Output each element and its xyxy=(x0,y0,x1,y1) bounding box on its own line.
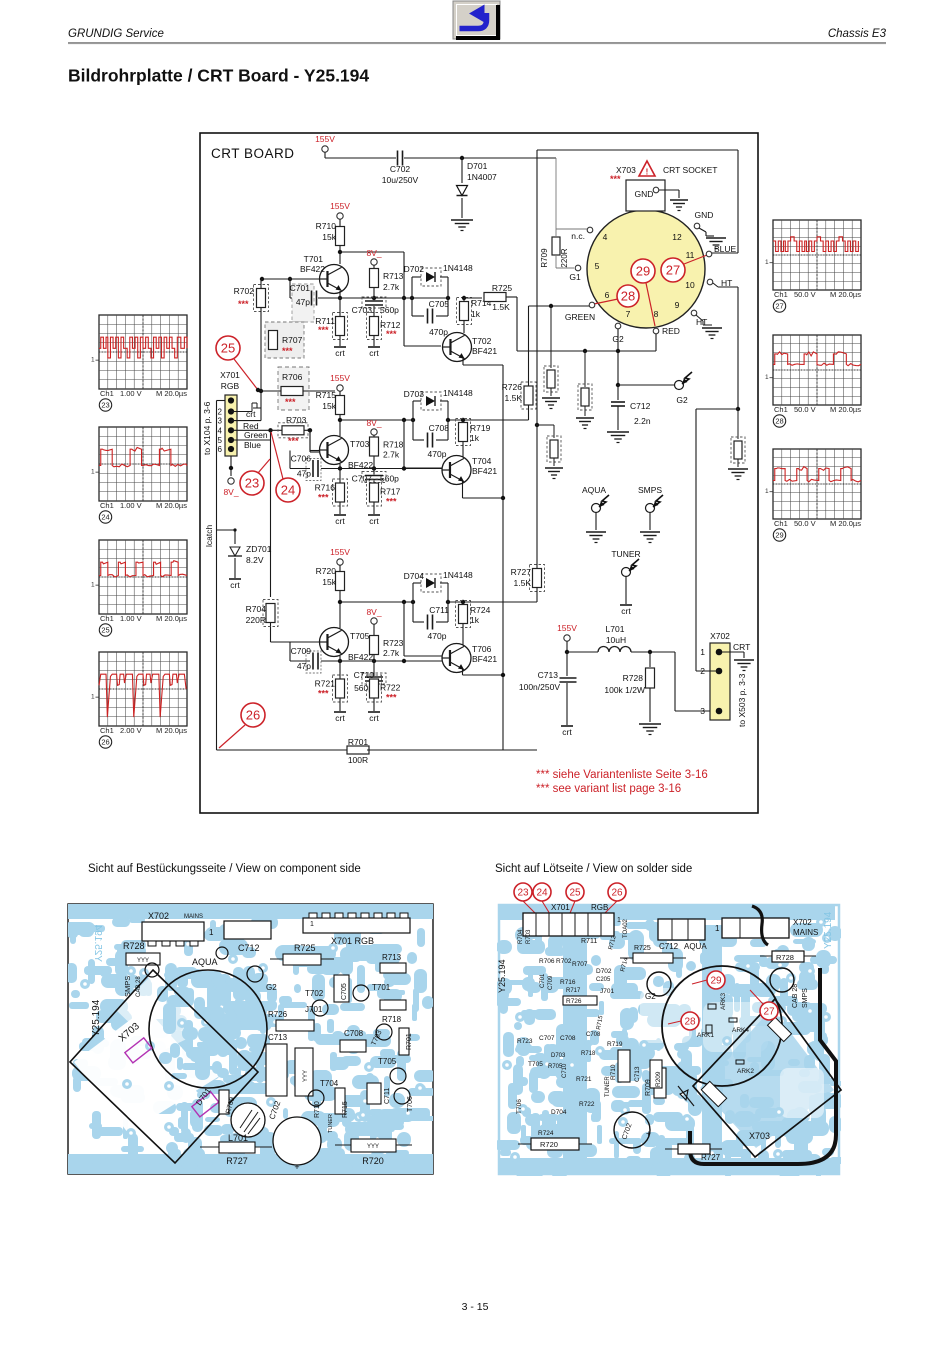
svg-text:100R: 100R xyxy=(348,755,368,765)
ground crt R712 xyxy=(368,347,380,358)
svg-text:AQUA: AQUA xyxy=(684,942,707,951)
svg-text:15k: 15k xyxy=(322,577,336,587)
svg-text:29: 29 xyxy=(636,264,650,279)
svg-text:R726: R726 xyxy=(566,998,582,1005)
svg-text:CRT SOCKET: CRT SOCKET xyxy=(663,165,717,175)
svg-text:CRT BOARD: CRT BOARD xyxy=(211,146,295,161)
capacitor C709 xyxy=(291,646,321,673)
svg-text:470p: 470p xyxy=(429,327,448,337)
right R727 xyxy=(665,1144,722,1162)
svg-text:CAB 28: CAB 28 xyxy=(792,984,799,1008)
svg-text:R705: R705 xyxy=(548,1064,563,1070)
footer page number xyxy=(462,1301,489,1313)
svg-text:*** see variant list page 3-16: *** see variant list page 3-16 xyxy=(536,783,681,795)
svg-text:BLUE: BLUE xyxy=(714,244,737,254)
svg-text:8V_: 8V_ xyxy=(366,607,381,617)
svg-text:50.0 V: 50.0 V xyxy=(794,519,816,528)
svg-text:9: 9 xyxy=(675,300,680,310)
wire pin4 green xyxy=(231,428,284,432)
emitter bus xyxy=(501,365,505,750)
right labels top cluster xyxy=(581,918,629,950)
resistor R719 xyxy=(456,418,491,457)
svg-text:R717: R717 xyxy=(566,988,581,994)
svg-text:1.5K: 1.5K xyxy=(492,302,510,312)
pcb C708 T703 R701 xyxy=(340,1024,413,1055)
svg-text:J701: J701 xyxy=(600,988,614,995)
svg-text:10u/250V: 10u/250V xyxy=(382,175,419,185)
svg-text:G2: G2 xyxy=(676,395,688,405)
svg-text:crt: crt xyxy=(562,727,572,737)
capacitor C705 xyxy=(412,298,449,337)
svg-text:C708: C708 xyxy=(560,1035,576,1042)
svg-text:1: 1 xyxy=(765,374,769,381)
svg-text:C701: C701 xyxy=(290,283,311,293)
transistor T703 xyxy=(320,436,374,471)
wire GREEN line xyxy=(529,304,590,386)
right R725 xyxy=(620,945,686,963)
wire base feed xyxy=(271,626,320,642)
right circled 27 xyxy=(750,990,778,1020)
svg-text:GRUNDIG Service: GRUNDIG Service xyxy=(68,28,164,40)
svg-text:470p: 470p xyxy=(428,449,447,459)
svg-text:SMPS: SMPS xyxy=(638,485,662,495)
svg-text:47p: 47p xyxy=(297,469,311,479)
svg-text:R724: R724 xyxy=(470,605,491,615)
svg-text:3: 3 xyxy=(700,706,705,716)
svg-text:155V: 155V xyxy=(330,201,350,211)
svg-text:C711: C711 xyxy=(384,1088,391,1104)
svg-text:47p: 47p xyxy=(297,661,311,671)
svg-text:4: 4 xyxy=(603,232,608,242)
resistor R710 xyxy=(316,221,345,246)
wire base feed xyxy=(310,430,320,450)
transistor T701 xyxy=(300,254,349,294)
svg-text:T705: T705 xyxy=(528,1061,543,1068)
X701 pins xyxy=(218,397,235,454)
svg-text:R718: R718 xyxy=(581,1051,596,1057)
svg-text:M 20.0µs: M 20.0µs xyxy=(156,614,187,623)
right C712 AQUA connector xyxy=(658,919,707,951)
svg-text:T702: T702 xyxy=(472,336,492,346)
svg-text:2.2n: 2.2n xyxy=(634,416,651,426)
svg-text:Sicht auf Bestückungsseite / V: Sicht auf Bestückungsseite / View on com… xyxy=(88,863,361,875)
svg-text:8: 8 xyxy=(654,309,659,319)
svg-text:T702: T702 xyxy=(305,989,324,998)
svg-text:Y25.194: Y25.194 xyxy=(91,999,102,1037)
svg-text:50.0 V: 50.0 V xyxy=(794,405,816,414)
svg-text:Ch1: Ch1 xyxy=(100,501,114,510)
node 155V stage T703 xyxy=(330,373,350,395)
svg-text:R701: R701 xyxy=(406,1033,413,1050)
svg-text:1: 1 xyxy=(91,582,95,589)
header rule xyxy=(68,43,886,44)
svg-text:25: 25 xyxy=(221,341,235,356)
svg-text:10: 10 xyxy=(685,280,695,290)
svg-text:29: 29 xyxy=(710,976,722,987)
svg-text:1k: 1k xyxy=(470,433,480,443)
pcb T702 C705 T701 xyxy=(305,975,391,1016)
pin HT upper xyxy=(707,278,738,409)
svg-text:8V_: 8V_ xyxy=(223,487,238,497)
svg-text:G2: G2 xyxy=(645,992,656,1001)
resistor R713 xyxy=(370,269,404,299)
connector X701 xyxy=(220,370,240,456)
svg-text:R725: R725 xyxy=(294,943,316,953)
svg-text:D703: D703 xyxy=(551,1053,566,1059)
svg-text:Ch1: Ch1 xyxy=(100,726,114,735)
pcb AQUA xyxy=(192,947,228,967)
transistor T705 xyxy=(320,628,374,663)
header text GRUNDIG Service xyxy=(68,28,164,40)
resistor R722 xyxy=(367,675,401,711)
svg-text:R710: R710 xyxy=(610,1064,617,1080)
svg-text:T704: T704 xyxy=(472,456,492,466)
svg-text:50.0 V: 50.0 V xyxy=(794,290,816,299)
resistor R728 xyxy=(604,652,661,735)
wire emitter t1 xyxy=(339,656,341,661)
wire output line xyxy=(338,415,529,436)
pcb C702 cap xyxy=(273,1117,321,1172)
resistor R725 xyxy=(462,283,517,312)
svg-text:R728: R728 xyxy=(623,673,644,683)
svg-text:X702: X702 xyxy=(710,631,730,641)
ground HT lower xyxy=(702,328,722,339)
svg-text:26: 26 xyxy=(611,888,623,899)
svg-text:T701: T701 xyxy=(372,983,391,992)
capacitor C710 xyxy=(354,661,386,693)
svg-text:C702: C702 xyxy=(390,164,411,174)
ground at socket key xyxy=(670,200,688,211)
pcb C712 R725 xyxy=(238,943,334,965)
pin G1 xyxy=(569,265,581,282)
svg-text:YYY: YYY xyxy=(303,1070,309,1082)
svg-text:ARK4: ARK4 xyxy=(732,1027,749,1034)
pcb Y25.194 xyxy=(91,999,102,1037)
pin G2 xyxy=(612,323,624,344)
svg-text:C701: C701 xyxy=(540,973,546,988)
node 155V L701 xyxy=(557,623,577,654)
node 155V stage T705 xyxy=(330,547,350,571)
resistor R709 xyxy=(540,237,569,268)
blue bus with R727 xyxy=(511,150,545,602)
resistor R712 xyxy=(367,313,401,347)
svg-text:crt: crt xyxy=(621,606,631,616)
circled 26 xyxy=(219,703,265,748)
pcb rect a xyxy=(224,921,271,939)
svg-text:T706: T706 xyxy=(407,1096,414,1112)
svg-text:crt: crt xyxy=(335,516,345,526)
transistor T704 xyxy=(442,456,497,485)
resistor R701 xyxy=(217,737,538,765)
svg-text:***: *** xyxy=(318,689,329,699)
spark resistor g2 xyxy=(576,351,594,429)
svg-text:M 20.0µs: M 20.0µs xyxy=(830,519,861,528)
right R726 box xyxy=(563,996,597,1005)
diode D704 xyxy=(404,570,473,602)
svg-text:M 20.0µs: M 20.0µs xyxy=(156,726,187,735)
svg-text:***: *** xyxy=(285,397,296,407)
diode D702 xyxy=(404,263,473,298)
svg-text:crt: crt xyxy=(230,580,240,590)
right circled 29 xyxy=(692,971,725,989)
pin GREEN xyxy=(565,302,595,322)
svg-text:SMPS: SMPS xyxy=(802,988,809,1008)
svg-text:Y25.194: Y25.194 xyxy=(497,959,507,993)
svg-text:R717: R717 xyxy=(380,487,401,497)
svg-text:23: 23 xyxy=(517,888,529,899)
svg-text:1k: 1k xyxy=(471,309,481,319)
svg-text:R723: R723 xyxy=(383,638,404,648)
pcb SMPS CAB 28 xyxy=(123,963,159,997)
pcb R720 xyxy=(335,1139,412,1166)
spark gap AQUA xyxy=(582,485,609,543)
pcb T705 xyxy=(378,1057,406,1084)
svg-text:M 20.0µs: M 20.0µs xyxy=(156,501,187,510)
svg-text:crt: crt xyxy=(369,713,379,723)
left board big circle xyxy=(149,970,267,1088)
svg-text:100n/250V: 100n/250V xyxy=(519,682,560,692)
svg-text:R706: R706 xyxy=(282,372,303,382)
svg-text:R725: R725 xyxy=(492,283,513,293)
X701 crt stub xyxy=(231,403,261,412)
svg-text:X701: X701 xyxy=(551,903,570,912)
ground crt zd701 xyxy=(229,579,241,590)
svg-text:1: 1 xyxy=(617,917,621,924)
circled 24 xyxy=(271,432,300,502)
svg-text:1.00 V: 1.00 V xyxy=(120,614,142,623)
ground crt b xyxy=(368,515,380,526)
svg-text:1: 1 xyxy=(715,924,720,933)
svg-text:2.00 V: 2.00 V xyxy=(120,726,142,735)
ground right of socket xyxy=(706,238,726,249)
svg-text:560p: 560p xyxy=(380,474,399,484)
svg-text:R726: R726 xyxy=(268,1010,288,1019)
svg-text:1N4007: 1N4007 xyxy=(467,172,497,182)
spark resistor green xyxy=(542,306,560,409)
svg-text:crt: crt xyxy=(335,713,345,723)
schematic frame xyxy=(200,133,758,813)
socket key box with GND xyxy=(626,180,679,211)
header text Chassis E3 xyxy=(828,28,887,40)
svg-text:27: 27 xyxy=(763,1007,775,1018)
svg-text:D704: D704 xyxy=(551,1109,567,1116)
scope waveform 23 xyxy=(91,315,187,411)
svg-text:R722: R722 xyxy=(579,1101,595,1108)
svg-text:2.7k: 2.7k xyxy=(383,450,400,460)
svg-text:C713: C713 xyxy=(634,1066,641,1082)
wire to X702 pin3 xyxy=(675,652,712,711)
svg-text:*** siehe Variantenliste Seite: *** siehe Variantenliste Seite 3-16 xyxy=(536,769,708,781)
pcb R713 R718 xyxy=(380,953,406,1024)
connector X702 pcb xyxy=(142,911,214,946)
svg-text:CAB 28: CAB 28 xyxy=(136,976,142,997)
svg-text:470p: 470p xyxy=(428,631,447,641)
svg-text:R728: R728 xyxy=(123,941,145,951)
resistor R724 xyxy=(456,600,491,645)
right TUNER xyxy=(605,1076,611,1097)
svg-text:C205: C205 xyxy=(596,977,611,983)
zener ZD701 xyxy=(217,528,272,578)
right thick bracket xyxy=(752,906,768,945)
wire HT to X702 xyxy=(696,409,738,671)
svg-text:100k 1/2W: 100k 1/2W xyxy=(604,685,645,695)
right C702 circle xyxy=(614,1112,651,1148)
section title solder side xyxy=(495,863,692,875)
svg-text:AQUA: AQUA xyxy=(582,485,606,495)
svg-text:TUNER: TUNER xyxy=(611,549,640,559)
svg-text:Y25.194: Y25.194 xyxy=(823,911,834,949)
circled 27 xyxy=(661,255,707,282)
capacitor C707 xyxy=(352,469,400,484)
right connector X701 xyxy=(523,903,621,936)
svg-text:12: 12 xyxy=(672,232,682,242)
svg-text:R723: R723 xyxy=(517,1038,533,1045)
svg-text:6: 6 xyxy=(605,290,610,300)
svg-text:47p: 47p xyxy=(296,297,310,307)
scope waveform 24 xyxy=(91,427,187,523)
svg-text:AQUA: AQUA xyxy=(192,957,218,967)
label to X503 xyxy=(737,673,747,727)
svg-text:155V: 155V xyxy=(330,373,350,383)
svg-text:BF421: BF421 xyxy=(472,346,497,356)
resistor R714 xyxy=(457,298,492,334)
svg-text:C713: C713 xyxy=(268,1033,288,1042)
node line xyxy=(290,642,442,663)
wire emitter T702 xyxy=(463,358,503,365)
resistor R706 xyxy=(261,367,335,410)
right T704 labels extra xyxy=(586,1015,605,1038)
wire R709 to G1 xyxy=(556,255,574,268)
scope waveform 25 xyxy=(91,540,187,636)
svg-text:R716: R716 xyxy=(315,483,336,493)
svg-text:Y25.194: Y25.194 xyxy=(92,924,103,962)
svg-text:1N4148: 1N4148 xyxy=(443,570,473,580)
node line xyxy=(290,451,442,471)
ground crt a xyxy=(334,712,346,723)
pcb C713 YYY xyxy=(266,1033,313,1096)
svg-text:T705: T705 xyxy=(378,1057,397,1066)
spark gap SMPS xyxy=(638,485,663,543)
svg-text:RGB: RGB xyxy=(221,381,240,391)
page title xyxy=(68,66,369,86)
X702 pin2 wire xyxy=(696,670,719,672)
right board white rect 1 xyxy=(767,1017,791,1041)
label CRT X702 xyxy=(722,642,750,658)
right circle pad xyxy=(770,968,794,992)
svg-text:11: 11 xyxy=(686,250,695,260)
left board copper pattern xyxy=(64,904,436,1176)
right small marks xyxy=(706,1004,744,1064)
X701 signal names xyxy=(243,409,268,450)
svg-text:R209: R209 xyxy=(655,1071,662,1087)
svg-text:1.5K: 1.5K xyxy=(505,393,523,403)
svg-text:M 20.0µs: M 20.0µs xyxy=(830,405,861,414)
capacitor C712 xyxy=(611,401,651,430)
svg-text:155V: 155V xyxy=(330,547,350,557)
svg-text:YYY: YYY xyxy=(137,958,149,964)
svg-text:155V: 155V xyxy=(315,134,335,144)
socket pin numbers xyxy=(595,232,695,319)
svg-text:Ch1: Ch1 xyxy=(100,614,114,623)
svg-text:R719: R719 xyxy=(470,423,491,433)
svg-text:R703: R703 xyxy=(526,929,532,944)
svg-text:lcatch: lcatch xyxy=(204,525,214,547)
svg-text:ZD701: ZD701 xyxy=(246,544,272,554)
circled 25 xyxy=(216,336,260,392)
svg-text:X703: X703 xyxy=(749,1131,770,1141)
X701 pin1 stub xyxy=(217,400,226,402)
svg-text:26: 26 xyxy=(101,738,109,747)
svg-text:T705: T705 xyxy=(350,631,370,641)
node 8V X701 xyxy=(223,456,238,497)
svg-text:+: + xyxy=(294,1162,299,1172)
node 155V top xyxy=(315,134,335,152)
svg-text:BF421: BF421 xyxy=(472,466,497,476)
wire base T701 xyxy=(260,277,319,281)
svg-text:R721: R721 xyxy=(315,679,336,689)
svg-text:2.7k: 2.7k xyxy=(383,282,400,292)
svg-text:2: 2 xyxy=(218,408,223,417)
svg-text:YYY: YYY xyxy=(367,1144,379,1150)
svg-text:crt: crt xyxy=(369,516,379,526)
svg-text:X702: X702 xyxy=(793,918,812,927)
pcb T704 R715 R710 TUNER xyxy=(308,1079,349,1133)
title CRT BOARD xyxy=(211,146,295,161)
wire blue rail xyxy=(537,150,738,253)
svg-text:28: 28 xyxy=(684,1017,696,1028)
svg-text:M 20.0µs: M 20.0µs xyxy=(156,389,187,398)
right circled 28 xyxy=(668,1012,699,1030)
svg-text:R713: R713 xyxy=(382,953,402,962)
right X702 MAINS xyxy=(715,918,818,938)
svg-text:G2: G2 xyxy=(266,983,277,992)
resistor R711 xyxy=(315,298,347,346)
svg-text:24: 24 xyxy=(536,888,548,899)
svg-text:27: 27 xyxy=(775,302,783,311)
svg-text:GREEN: GREEN xyxy=(565,312,595,322)
svg-text:C713: C713 xyxy=(538,670,559,680)
svg-text:R719: R719 xyxy=(607,1041,623,1048)
svg-text:R726: R726 xyxy=(502,382,523,392)
svg-text:1.00 V: 1.00 V xyxy=(120,389,142,398)
svg-text:R709: R709 xyxy=(540,248,549,268)
svg-text:RGB: RGB xyxy=(591,903,608,912)
svg-text:C709: C709 xyxy=(548,975,554,990)
svg-text:C707: C707 xyxy=(352,474,373,484)
svg-text:C703: C703 xyxy=(352,305,373,315)
svg-text:R702: R702 xyxy=(556,958,572,965)
wire pin5 blue xyxy=(231,430,271,597)
resistor R716 xyxy=(315,469,348,515)
svg-text:8V_: 8V_ xyxy=(366,248,381,258)
right R710 box xyxy=(610,1050,630,1082)
svg-text:28: 28 xyxy=(775,417,783,426)
svg-text:R710: R710 xyxy=(316,221,337,231)
back button xyxy=(453,1,500,40)
scope waveform 28 xyxy=(765,335,861,427)
resistor R707 xyxy=(265,322,304,358)
svg-text:C710: C710 xyxy=(562,1063,568,1078)
resistor R726 xyxy=(502,382,536,420)
magenta rect 2 xyxy=(192,1092,219,1117)
svg-text:G1: G1 xyxy=(569,272,581,282)
svg-text:D702: D702 xyxy=(596,968,612,975)
svg-text:T706: T706 xyxy=(516,1099,523,1114)
svg-text:R720: R720 xyxy=(362,1156,384,1166)
red leaders xyxy=(523,901,617,921)
svg-text:T706: T706 xyxy=(472,644,492,654)
svg-text:ARK2: ARK2 xyxy=(737,1068,754,1075)
